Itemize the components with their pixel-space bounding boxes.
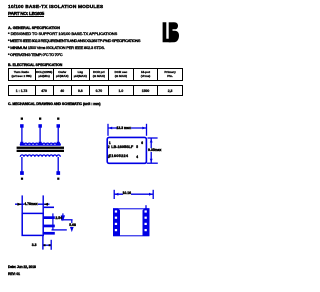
transformer core bar 1 <box>17 147 64 149</box>
transformer pin 4 label dot <box>57 178 59 180</box>
top view pin1 mark <box>109 141 111 145</box>
terminal square pin 4 <box>56 171 60 175</box>
terminal square pin 6 <box>20 171 24 175</box>
footer date <box>8 265 36 269</box>
side view bottom dim arrow dots <box>44 244 46 246</box>
footprint width dim label <box>123 191 132 195</box>
footprint pad window right 1 <box>145 210 147 212</box>
transformer pin 6 label dot <box>21 178 23 180</box>
top view width dim label <box>117 126 131 130</box>
section C heading <box>8 102 100 106</box>
wire lead pin 6 <box>21 157 23 172</box>
wire lead pin 3 <box>57 128 59 143</box>
terminal square pin 3 <box>57 124 61 128</box>
side view pin 1 <box>44 216 55 219</box>
transformer T1 pin 3 label dot <box>57 118 59 120</box>
logo LB <box>162 22 179 43</box>
footprint width dim line <box>114 193 153 195</box>
footer rev <box>8 272 20 276</box>
side view bottom stub <box>42 235 44 249</box>
top view width dim arrow right <box>142 127 146 130</box>
side view pitch baseline lower <box>52 229 67 231</box>
side view pitch tick 2 <box>62 213 65 219</box>
top view height dim top bar <box>148 137 158 139</box>
primary winding <box>20 143 61 145</box>
top view pin mark tr <box>141 141 143 145</box>
footprint pad window right 4 <box>145 229 147 231</box>
side view pitch baseline upper <box>61 219 73 221</box>
side view dim extension left <box>21 195 23 213</box>
title line 2 <box>8 12 44 17</box>
top view pin mark l1 <box>108 145 110 149</box>
side view bottom dim line <box>44 244 52 246</box>
top view pin mark br <box>136 155 138 159</box>
side view bottom dim label 3.3 <box>32 243 37 247</box>
section A line 1 <box>8 31 117 36</box>
primary winding joint pin1 <box>20 142 23 145</box>
side view bottom dim end bar <box>50 240 52 250</box>
transformer T1 pin 1 label dot <box>21 118 23 120</box>
footprint pad column right <box>143 208 150 236</box>
side view pitch vertical right <box>71 220 74 231</box>
transformer core bar 2 <box>17 150 64 152</box>
footprint width dim ext left <box>113 190 115 199</box>
footprint pad window left 1 <box>115 210 117 212</box>
footprint outline <box>114 209 149 236</box>
section A line 2 <box>8 38 140 43</box>
wire lead pin 1 <box>21 128 23 143</box>
terminal square pin 2 <box>38 124 42 128</box>
side view pitch label 5.08 <box>69 223 76 227</box>
side view pin 2 <box>44 225 55 228</box>
side view pitch label 2.54 <box>55 216 62 220</box>
section A heading <box>8 26 60 30</box>
footprint pad window left 2 <box>115 217 117 219</box>
footprint width dim arrow left <box>114 193 118 196</box>
top view width dim arrow left <box>108 127 112 130</box>
section A line 3 <box>8 45 105 50</box>
top view width dim extension right <box>146 124 148 136</box>
footprint pad window left 4 <box>115 229 117 231</box>
footprint pad window right 3 <box>145 223 147 225</box>
primary winding joint pin3 <box>57 142 60 145</box>
section A line 4 <box>8 52 62 57</box>
side view top lead line <box>44 206 54 208</box>
side view pitch tick 1 <box>52 213 54 230</box>
title line 1 <box>8 5 103 10</box>
table header row <box>8 68 184 81</box>
footprint right ext tick <box>145 205 147 208</box>
side view dim extension right <box>42 195 44 213</box>
footprint width dim arrow right <box>149 193 153 196</box>
footprint width dim ext right <box>152 190 154 199</box>
side view body width arrow right <box>43 203 48 206</box>
terminal square pin 1 <box>20 124 24 128</box>
top view height dim arrow down <box>150 159 153 163</box>
footprint pad window left 3 <box>115 223 117 225</box>
top view height dim label <box>148 148 161 152</box>
top view width dim line <box>108 127 147 129</box>
secondary winding <box>20 155 60 157</box>
top view width dim extension left <box>107 124 109 136</box>
top view height dim arrow up <box>150 139 153 143</box>
section B heading <box>8 63 62 67</box>
side view body width arrow left <box>17 203 22 206</box>
top view height dim bottom bar <box>147 162 158 164</box>
table data row <box>8 85 184 96</box>
wire lead pin 4 <box>57 157 59 172</box>
transformer T1 pin 2 label dot <box>39 118 41 120</box>
side view pin 3 <box>44 232 55 235</box>
footprint pad window right 2 <box>145 217 147 219</box>
top view pin5 mark <box>136 145 138 149</box>
wire lead pin 2 <box>39 128 41 143</box>
side view body width dim line <box>15 203 50 205</box>
side view body outline <box>22 213 43 235</box>
footprint pad column left <box>113 208 120 236</box>
top view pin mark bl <box>108 155 110 159</box>
top view outline <box>107 137 146 163</box>
top view height dim line <box>150 138 152 163</box>
side view body dim label <box>24 202 37 206</box>
top view part number line 2 <box>109 154 129 158</box>
primary winding joint pin2 <box>39 142 42 145</box>
top view part number line 1 <box>111 145 133 149</box>
